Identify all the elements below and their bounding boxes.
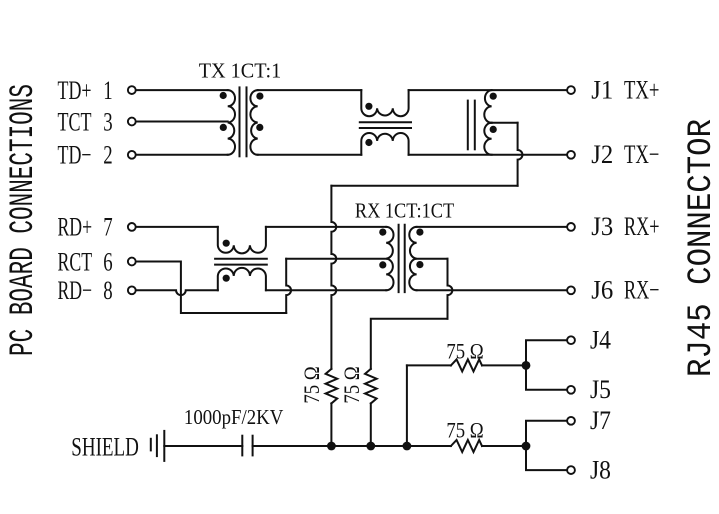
capacitor C1 right plate — [252, 436, 254, 456]
wire RCT to T3 primary center tap — [286, 258, 386, 260]
transformer T3 RX primary winding — [386, 227, 393, 290]
terminal pin 6 — [128, 258, 136, 266]
svg-text:PC BOARD CONNECTIONS: PC BOARD CONNECTIONS — [4, 84, 43, 356]
transformer T1 TX primary winding — [228, 90, 235, 155]
wire RD+ terminal 7 to choke L2 — [136, 226, 218, 228]
wire T3 tap drop with hop over J6 — [448, 259, 453, 319]
polarity dot T2 upper — [490, 93, 497, 100]
polarity dot choke L2 bottom — [223, 275, 230, 282]
polarity dot choke L2 top — [223, 240, 230, 247]
svg-text:J8: J8 — [590, 456, 611, 485]
wire TCT terminal 3 to T1 center tap — [136, 121, 228, 123]
resistor R2 75ohm vertical — [365, 369, 377, 404]
svg-text:75 Ω: 75 Ω — [446, 340, 483, 364]
wire RCT terminal 6 down and across — [136, 262, 286, 314]
junction J7/J8 — [522, 442, 531, 451]
svg-text:TX+: TX+ — [624, 75, 659, 104]
wire T3 secondary bottom to J6 — [417, 289, 567, 291]
svg-text:TCT: TCT — [58, 107, 92, 136]
wire T2 center tap — [492, 122, 518, 124]
wire J4 branch — [526, 340, 567, 365]
svg-text:8: 8 — [103, 276, 112, 305]
wire TD- terminal 2 to T1 primary — [136, 154, 228, 156]
polarity dot choke L1 top — [365, 103, 372, 110]
svg-text:RX+: RX+ — [624, 212, 660, 241]
wire choke L1 top to J1 — [409, 89, 567, 91]
choke L2 top coil — [218, 227, 266, 253]
polarity dot T3 primary upper — [379, 229, 386, 236]
polarity dot T1 primary lower — [220, 124, 227, 131]
wire choke L2 top to T3 primary top — [266, 226, 386, 228]
polarity dot T3 secondary lower — [416, 261, 423, 268]
autotransformer T2 core line 2 — [474, 101, 476, 150]
autotransformer T2 core line 1 — [467, 101, 469, 150]
junction J4/J5 — [522, 361, 531, 370]
svg-text:J7: J7 — [590, 407, 611, 436]
wire capacitor C1 to shield bus — [253, 445, 451, 447]
wire T3 secondary tap — [417, 258, 448, 260]
svg-text:J2: J2 — [591, 139, 613, 169]
wire shield to capacitor C1 — [164, 445, 242, 447]
wire T2 tap drop with hop over J2 — [518, 123, 523, 186]
choke L1 core line 1 — [360, 121, 411, 123]
svg-text:75 Ω: 75 Ω — [446, 419, 483, 443]
terminal J7 — [567, 417, 575, 425]
svg-text:75 Ω: 75 Ω — [341, 366, 365, 403]
terminal J8 — [567, 466, 575, 474]
wire J8 branch — [526, 446, 567, 470]
choke L2 core line 2 — [215, 264, 267, 266]
terminal J1 — [567, 86, 575, 94]
resistor R3 75ohm horizontal — [451, 359, 482, 371]
resistor R4 75ohm horizontal — [451, 440, 482, 452]
svg-text:J3: J3 — [591, 211, 613, 241]
choke L1 bottom coil — [361, 133, 408, 155]
polarity dot T1 secondary upper — [256, 93, 263, 100]
terminal J3 — [567, 223, 575, 231]
wire T3 tap return to R2 — [371, 319, 448, 369]
svg-text:2: 2 — [103, 141, 112, 170]
wire choke L2 bottom to T3 primary bottom — [266, 289, 386, 291]
terminal pin 7 — [128, 223, 136, 231]
transformer T1 TX secondary winding — [250, 90, 257, 155]
wire T1 secondary bottom to choke L1 — [258, 154, 362, 156]
choke L2 bottom coil — [218, 268, 266, 290]
wire R2 to shield bus — [370, 403, 372, 446]
wire RCT rise with hop over RD- — [286, 259, 291, 313]
wire R3 to J4/J5 junction — [482, 364, 526, 366]
svg-text:3: 3 — [103, 107, 112, 136]
terminal pin 1 — [128, 86, 136, 94]
svg-text:7: 7 — [103, 213, 112, 242]
choke L2 core line 1 — [215, 258, 267, 260]
polarity dot T3 primary lower — [379, 261, 386, 268]
transformer T1 core line 1 — [239, 87, 241, 156]
junction R1 on shield bus — [327, 442, 336, 451]
terminal pin 2 — [128, 151, 136, 159]
wire J5 branch — [526, 365, 567, 389]
junction R3 branch on shield bus — [403, 442, 412, 451]
polarity dot choke L1 bottom — [365, 139, 372, 146]
shield symbol bar 2 — [156, 435, 158, 456]
wire T3 secondary top to J3 — [417, 226, 567, 228]
choke L1 top coil — [361, 90, 408, 116]
transformer T3 RX secondary winding — [409, 227, 416, 290]
svg-text:TD−: TD− — [58, 140, 92, 169]
transformer T3 core line 2 — [404, 225, 406, 292]
wire R3 branch vertical — [406, 365, 408, 446]
svg-text:75 Ω: 75 Ω — [301, 366, 325, 403]
autotransformer T2 winding lower half — [484, 123, 491, 155]
svg-text:RX−: RX− — [624, 275, 660, 304]
svg-text:RJ45 CONNECTOR: RJ45 CONNECTOR — [682, 119, 719, 377]
terminal J2 — [567, 151, 575, 159]
capacitor C1 left plate — [241, 436, 243, 456]
terminal J6 — [567, 286, 575, 294]
terminal J4 — [567, 336, 575, 344]
wire R1 to shield bus — [330, 403, 332, 446]
transformer T3 core line 1 — [398, 225, 400, 292]
resistor R1 75ohm vertical — [326, 369, 338, 404]
svg-text:TX 1CT:1: TX 1CT:1 — [199, 60, 282, 82]
transformer T1 core line 2 — [246, 87, 248, 156]
svg-text:RCT: RCT — [58, 247, 93, 276]
svg-text:J5: J5 — [590, 376, 611, 405]
terminal J5 — [567, 386, 575, 394]
svg-text:1000pF/2KV: 1000pF/2KV — [184, 406, 284, 429]
wire RD- terminal 8 with dip under RCT drop — [136, 290, 218, 295]
svg-text:J4: J4 — [590, 326, 611, 355]
autotransformer T2 winding upper half — [484, 90, 491, 123]
svg-text:J1: J1 — [591, 75, 613, 105]
svg-text:6: 6 — [103, 247, 112, 276]
polarity dot T3 secondary upper — [416, 229, 423, 236]
terminal pin 8 — [128, 286, 136, 294]
terminal pin 3 — [128, 118, 136, 126]
shield symbol bar 3 — [163, 431, 165, 461]
wire to resistor R3 — [407, 364, 451, 366]
polarity dot T1 secondary lower — [256, 124, 263, 131]
svg-text:SHIELD: SHIELD — [71, 432, 139, 462]
junction R2 on shield bus — [366, 442, 375, 451]
wire vertical bus to R1 with three hops — [331, 186, 336, 369]
polarity dot T1 primary upper — [220, 92, 227, 99]
wire T1 secondary top to choke L1 — [258, 89, 362, 91]
svg-text:RX 1CT:1CT: RX 1CT:1CT — [355, 199, 454, 222]
shield symbol bar 1 — [150, 439, 152, 451]
svg-text:TD+: TD+ — [58, 75, 92, 104]
wire T2 tap return horizontal — [331, 185, 517, 187]
svg-text:1: 1 — [103, 76, 112, 105]
wire TD+ terminal 1 to T1 primary — [136, 89, 228, 91]
wire R4 to J7/J8 junction — [482, 445, 526, 447]
svg-text:TX−: TX− — [624, 140, 659, 169]
svg-text:RD+: RD+ — [58, 212, 93, 241]
svg-text:J6: J6 — [591, 275, 613, 305]
svg-text:RD−: RD− — [58, 276, 93, 305]
wire choke L1 bottom to J2 — [409, 154, 567, 156]
choke L1 core line 2 — [360, 127, 411, 129]
wire J7 branch — [526, 421, 567, 446]
polarity dot T2 lower — [490, 126, 497, 133]
